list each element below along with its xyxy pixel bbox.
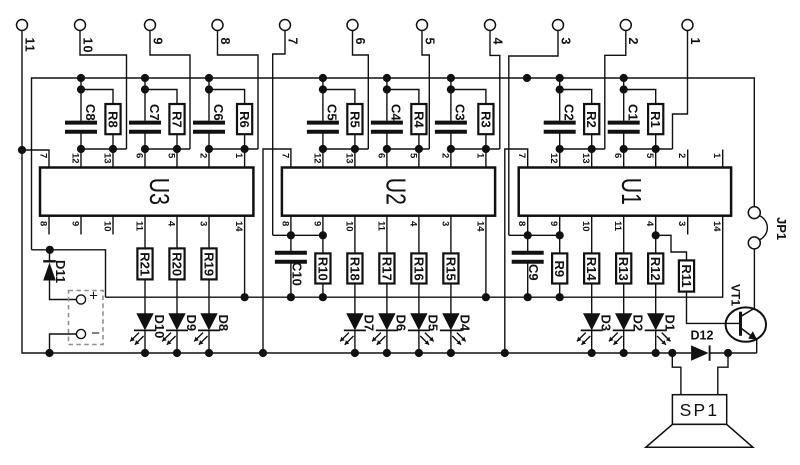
svg-text:5: 5 (644, 153, 655, 159)
wire resistor R1 to pin (655, 134, 657, 167)
node terminal 3 (553, 20, 564, 31)
junction pin node R5 (351, 145, 359, 153)
junction U2 pin9 (319, 231, 327, 239)
resistor R4 (411, 104, 426, 134)
wire SP1 right lead (718, 353, 728, 395)
wire D8 to rail (208, 330, 210, 353)
svg-text:8: 8 (516, 221, 527, 226)
wire U2 pins 8/9 node (273, 234, 323, 236)
LED D3 (583, 313, 600, 330)
wire bus to capacitor C2 (559, 78, 561, 121)
pin 8 stub U3 (48, 216, 50, 235)
wire U2 pin to R16 (418, 216, 420, 254)
resistor R11 (679, 260, 694, 291)
wire bus to capacitor C7 (144, 78, 146, 121)
wire C9 to link line (527, 264, 529, 298)
diode D11 (43, 260, 56, 262)
wire terminal 2 to U1 pin13 node (605, 31, 626, 150)
wire bus to capacitor C1 (623, 78, 625, 121)
svg-text:12: 12 (311, 153, 322, 164)
wire R14 to LED D3 (591, 284, 593, 314)
svg-text:D12: D12 (691, 329, 714, 343)
wire U2 pin to R18 (354, 216, 356, 254)
wire D6 to rail (386, 330, 388, 353)
wire link line (106, 216, 723, 298)
wire branch to resistor R5 (323, 90, 355, 105)
wire capacitor C5 to pin (322, 133, 324, 167)
svg-text:C8: C8 (83, 104, 98, 121)
wire capacitor C7 to pin (144, 133, 146, 167)
capacitor C3 (435, 121, 467, 125)
wire C10 to link line (290, 264, 292, 298)
node terminal 9 (145, 20, 156, 31)
wire branch to resistor R3 (451, 90, 486, 105)
svg-text:7: 7 (279, 153, 290, 158)
svg-text:R8: R8 (105, 111, 120, 128)
svg-text:R2: R2 (584, 111, 599, 128)
svg-text:14: 14 (474, 221, 485, 232)
wire U3 pin14 to link line (244, 216, 246, 298)
transistor VT1 (726, 307, 766, 341)
wire JP1 to VT1 collector (753, 249, 755, 309)
wire R9 to link line (559, 284, 561, 298)
capacitor C7 (129, 121, 161, 125)
wire R13 to LED D2 (623, 284, 625, 314)
junction pin node R6 (241, 145, 249, 153)
wire U2 pin9 to R10 (322, 235, 324, 253)
capacitor C1 (608, 121, 640, 125)
junction link C9 (524, 293, 532, 301)
pin 9 stub U3 (80, 216, 82, 235)
wire bus to capacitor C8 (80, 78, 82, 121)
node terminal 10 (75, 20, 86, 31)
pin 2 stub U1 (687, 150, 689, 168)
svg-text:5: 5 (422, 38, 436, 46)
wire stage node C5/R5 (323, 148, 368, 150)
wire stage node C7/R7 (145, 148, 190, 150)
battery connector box (69, 291, 104, 345)
node terminal 5 (417, 20, 428, 31)
wire U3 pin7 to left rail (22, 150, 49, 168)
wire D11 to battery plus (50, 281, 77, 300)
wire bus to capacitor C5 (322, 78, 324, 121)
resistor R21 (137, 248, 152, 279)
junction rail D7 (351, 349, 359, 357)
junction pin node R8 (109, 145, 117, 153)
pin 9 stub U2 (322, 216, 324, 236)
pin 9 stub U1 (559, 216, 561, 236)
wire resistor R3 to pin (485, 134, 487, 167)
LED D8 (200, 313, 217, 330)
wire capacitor C3 to pin (450, 133, 452, 167)
op-amp ic U2 (282, 168, 495, 216)
svg-text:SP1: SP1 (680, 400, 720, 420)
svg-text:C7: C7 (147, 104, 162, 121)
svg-text:6: 6 (612, 153, 623, 158)
junction pin node C5 (319, 145, 327, 153)
resistor R1 (648, 104, 663, 134)
node battery minus (76, 329, 85, 338)
svg-text:8: 8 (37, 221, 48, 226)
svg-text:10: 10 (101, 221, 112, 232)
junction branch at C7 (141, 85, 149, 93)
svg-text:R17: R17 (379, 257, 394, 281)
resistor R10 (315, 253, 330, 283)
svg-text:C4: C4 (389, 104, 404, 121)
wire U1 pin to R14 (591, 216, 593, 254)
svg-text:5: 5 (407, 153, 418, 159)
LED D10 (136, 313, 153, 330)
wire terminal 3 to U1 pins 8/9 (509, 31, 558, 236)
wire capacitor C1 to pin (623, 133, 625, 167)
wire terminal 8 to U3 pin1 node (218, 31, 259, 150)
svg-text:4: 4 (165, 221, 176, 227)
resistor R3 (478, 104, 493, 134)
junction ground U2 pin7 (259, 349, 267, 357)
diode D12 (691, 345, 709, 360)
svg-text:D11: D11 (53, 260, 68, 283)
svg-text:R18: R18 (347, 257, 362, 281)
svg-text:R9: R9 (552, 260, 567, 277)
svg-text:C3: C3 (453, 104, 468, 121)
resistor R20 (169, 248, 184, 279)
wire resistor R8 to pin (112, 134, 114, 167)
junction U1 pin8 (524, 231, 532, 239)
resistor R2 (584, 104, 599, 134)
wire D1 to rail (655, 330, 657, 353)
svg-text:R4: R4 (411, 111, 426, 128)
svg-text:R21: R21 (137, 252, 152, 276)
junction branch at C5 (319, 85, 327, 93)
svg-text:6: 6 (375, 153, 386, 158)
svg-text:10: 10 (343, 221, 354, 232)
op-amp ic U3 (40, 168, 253, 216)
svg-text:2: 2 (676, 153, 687, 158)
wire terminal 1 to U1 pin5 node (673, 31, 688, 150)
svg-text:4: 4 (644, 221, 655, 227)
junction bus near U1 (523, 74, 531, 82)
LED D9 (168, 313, 185, 330)
svg-text:D5: D5 (426, 315, 441, 332)
wire U1 pin to R13 (623, 216, 625, 254)
wire terminal 4 to U2 pin1 node (490, 31, 500, 150)
svg-text:3: 3 (197, 221, 208, 226)
junction rail D4 (447, 349, 455, 357)
wire U2 pin7 to ground (263, 149, 291, 353)
svg-text:9: 9 (69, 221, 80, 226)
wire branch to resistor R7 (145, 90, 177, 105)
svg-text:JP1: JP1 (774, 217, 789, 240)
svg-text:R20: R20 (169, 252, 184, 276)
capacitor C2 (544, 121, 576, 125)
wire branch to resistor R2 (560, 90, 592, 105)
junction link C10 (287, 293, 295, 301)
svg-text:R7: R7 (169, 111, 184, 128)
svg-text:7: 7 (285, 38, 299, 46)
junction bus at C1 (620, 74, 628, 82)
wire U1 pins 8/9 node (509, 234, 560, 236)
svg-text:R19: R19 (201, 252, 216, 276)
svg-text:U3: U3 (143, 178, 175, 205)
resistor R8 (105, 104, 120, 134)
wire stage node C8/R8 (81, 148, 127, 150)
svg-text:9: 9 (311, 221, 322, 226)
junction D11 top (46, 246, 54, 254)
svg-text:11: 11 (375, 221, 386, 232)
junction branch at C2 (556, 85, 564, 93)
svg-text:10: 10 (580, 221, 591, 232)
wire terminal 5 to U2 pin5 node (422, 31, 429, 150)
junction rail SP1 left (668, 349, 676, 357)
junction branch at C1 (620, 85, 628, 93)
svg-text:VT1: VT1 (729, 284, 743, 306)
svg-text:C5: C5 (325, 104, 340, 121)
junction rail D5 (415, 349, 423, 357)
capacitor C4 (371, 121, 403, 125)
wire terminal 6 to U2 pin13 node (353, 31, 369, 150)
wire branch to resistor R1 (624, 90, 656, 105)
resistor R5 (347, 104, 362, 134)
svg-text:12: 12 (548, 153, 559, 164)
wire resistor R4 to pin (418, 134, 420, 167)
wire U2 pin to R17 (386, 216, 388, 254)
svg-text:C6: C6 (211, 104, 226, 121)
wire terminal 10 to U3 pin13 node (80, 31, 127, 150)
junction pin node C3 (447, 145, 455, 153)
wire R20 to LED D9 (176, 279, 178, 313)
wire R21 to LED D10 (144, 279, 146, 313)
pin 8 stub U2 (290, 216, 292, 236)
wire battery minus to rail (50, 334, 77, 353)
resistor R18 (347, 253, 362, 283)
resistor R14 (584, 253, 599, 283)
junction pin node C8 (77, 145, 85, 153)
svg-text:11: 11 (22, 38, 36, 53)
resistor R13 (616, 253, 631, 283)
wire capacitor C6 to pin (208, 133, 210, 167)
wire D9 to rail (176, 330, 178, 353)
junction branch at C8 (77, 85, 85, 93)
junction pin node R4 (415, 145, 423, 153)
junction pin node C2 (556, 145, 564, 153)
wire resistor R7 to pin (176, 134, 178, 167)
svg-text:6: 6 (353, 38, 367, 46)
junction rail D9 (173, 349, 181, 357)
svg-text:14: 14 (233, 221, 244, 232)
resistor R19 (201, 248, 216, 279)
wire terminal 7 to U2 pins 8/9 (273, 31, 285, 236)
svg-text:2: 2 (197, 153, 208, 158)
junction pin node C1 (620, 145, 628, 153)
svg-text:7: 7 (37, 153, 48, 158)
wire D3 to rail (591, 330, 593, 353)
junction U1 pin4 (652, 231, 660, 239)
wire stage node C1/R1 (624, 148, 673, 150)
svg-text:R15: R15 (443, 257, 458, 281)
wire R11 to VT1 base (687, 292, 740, 324)
wire D4 to rail (450, 330, 452, 353)
wire U3 pin 3 to R19 (208, 216, 210, 249)
wire branch to resistor R8 (81, 90, 113, 105)
junction link U2 pin14 (482, 293, 490, 301)
wire bus to capacitor C4 (386, 78, 388, 121)
svg-text:U1: U1 (615, 178, 647, 205)
wire U2 pin8 to C10 (290, 235, 292, 251)
junction rail SP1 right (724, 349, 732, 357)
wire R10 to link line (322, 284, 324, 298)
resistor R9 (552, 253, 567, 283)
svg-text:1: 1 (688, 38, 702, 46)
wire capacitor C4 to pin (386, 133, 388, 167)
wire node to D11 (49, 250, 51, 261)
wire stage node C6/R6 (209, 148, 258, 150)
resistor R6 (237, 104, 252, 134)
junction branch at C4 (383, 85, 391, 93)
junction rail D1 (652, 349, 660, 357)
junction rail D6 (383, 349, 391, 357)
svg-text:6: 6 (133, 153, 144, 158)
junction branch at C6 (205, 85, 213, 93)
svg-text:D3: D3 (599, 315, 614, 332)
junction bus at C6 (205, 74, 213, 82)
wire R18 to LED D7 (354, 284, 356, 314)
junction rail D3 (588, 349, 596, 357)
wire terminal 11 left rail and bottom common rail (22, 31, 691, 354)
node terminal 2 (620, 20, 631, 31)
wire D2 to rail (623, 330, 625, 353)
wire capacitor C2 to pin (559, 133, 561, 167)
svg-text:R3: R3 (478, 111, 493, 128)
node terminal 11 (17, 20, 28, 31)
capacitor C9 (512, 251, 544, 255)
wire bottom rail right of D12 (710, 352, 757, 354)
junction link R9 (556, 293, 564, 301)
svg-text:2: 2 (626, 38, 640, 46)
junction rail D2 (620, 349, 628, 357)
svg-text:D1: D1 (663, 315, 678, 332)
svg-text:3: 3 (676, 221, 687, 226)
svg-text:4: 4 (407, 221, 418, 227)
wire U2 pin14 to link line (485, 216, 487, 298)
wire U3 pin 11 to R21 (144, 216, 146, 249)
junction ground U1 pin7 (501, 349, 509, 357)
wire resistor R5 to pin (354, 134, 356, 167)
junction pin node R7 (173, 145, 181, 153)
junction bus at C8 (77, 74, 85, 82)
pin 8 stub U1 (527, 216, 529, 236)
svg-text:C2: C2 (562, 104, 577, 121)
svg-text:3: 3 (558, 38, 572, 46)
svg-text:13: 13 (343, 153, 354, 164)
junction pin node R2 (588, 145, 596, 153)
svg-text:13: 13 (580, 153, 591, 164)
svg-text:R12: R12 (648, 257, 663, 281)
wire D10 to rail (144, 330, 146, 353)
node terminal 7 (280, 20, 291, 31)
svg-text:C1: C1 (626, 104, 641, 121)
wire branch to resistor R6 (209, 90, 245, 105)
svg-text:9: 9 (548, 221, 559, 226)
LED D4 (442, 313, 459, 330)
svg-text:R16: R16 (411, 257, 426, 281)
wire top supply bus (32, 78, 755, 250)
junction pin node C6 (205, 145, 213, 153)
capacitor C5 (307, 121, 339, 125)
svg-text:R11: R11 (679, 264, 694, 287)
svg-text:D2: D2 (631, 315, 646, 332)
junction rail D10 (141, 349, 149, 357)
svg-text:R5: R5 (347, 111, 362, 128)
svg-text:9: 9 (150, 38, 164, 46)
svg-text:1: 1 (474, 153, 485, 159)
wire R19 to LED D8 (208, 279, 210, 313)
svg-text:R1: R1 (648, 111, 663, 128)
svg-text:12: 12 (69, 153, 80, 164)
LED D2 (615, 313, 632, 330)
svg-text:R6: R6 (237, 111, 252, 128)
svg-text:3: 3 (439, 221, 450, 226)
svg-text:4: 4 (490, 38, 504, 46)
resistor R15 (443, 253, 458, 283)
resistor R17 (379, 253, 394, 283)
junction bus at C2 (556, 74, 564, 82)
wire stage node C3/R3 (451, 148, 500, 150)
junction left rail pin7 U3 (18, 146, 26, 154)
wire resistor R2 to pin (591, 134, 593, 167)
svg-text:D7: D7 (362, 315, 377, 332)
wire R15 to LED D4 (450, 284, 452, 314)
junction U1 pin9 (556, 231, 564, 239)
op-amp ic U1 (519, 168, 731, 216)
junction bus at C4 (383, 74, 391, 82)
junction branch at C3 (447, 85, 455, 93)
node terminal 4 (485, 20, 496, 31)
LED D7 (346, 313, 363, 330)
wire bus to capacitor C3 (450, 78, 452, 121)
wire R16 to LED D5 (418, 284, 420, 314)
svg-text:R13: R13 (616, 257, 631, 281)
junction U2 pin8 (287, 231, 295, 239)
junction rail D8 (205, 349, 213, 357)
svg-text:5: 5 (165, 153, 176, 159)
wire R17 to LED D6 (386, 284, 388, 314)
node terminal 1 (682, 20, 693, 31)
svg-text:D4: D4 (458, 315, 473, 332)
resistor R12 (648, 253, 663, 283)
wire U1 pin to R12 (655, 216, 657, 254)
node terminal 6 (347, 20, 358, 31)
svg-text:11: 11 (612, 221, 623, 232)
junction link U3 pin14 (241, 293, 249, 301)
wire branch to resistor R4 (387, 90, 419, 105)
wire supply node line (32, 250, 106, 297)
wire U1 pin8 to C9 (527, 235, 529, 251)
node terminal 8 (212, 20, 223, 31)
svg-text:D6: D6 (394, 315, 409, 332)
capacitor C6 (193, 121, 225, 125)
junction pin node C4 (383, 145, 391, 153)
wire U3 pin 4 to R20 (176, 216, 178, 249)
wire terminal 9 to U3 pin5 node (150, 31, 190, 150)
resistor R16 (411, 253, 426, 283)
wire U1 pin7 to ground (505, 149, 528, 353)
junction bus at C3 (447, 74, 455, 82)
svg-text:1: 1 (711, 153, 722, 159)
svg-text:8: 8 (218, 38, 232, 46)
wire R12 to LED D1 (655, 284, 657, 314)
wire U1 pin4 to R11 (656, 235, 687, 260)
junction rail battery (45, 349, 53, 357)
